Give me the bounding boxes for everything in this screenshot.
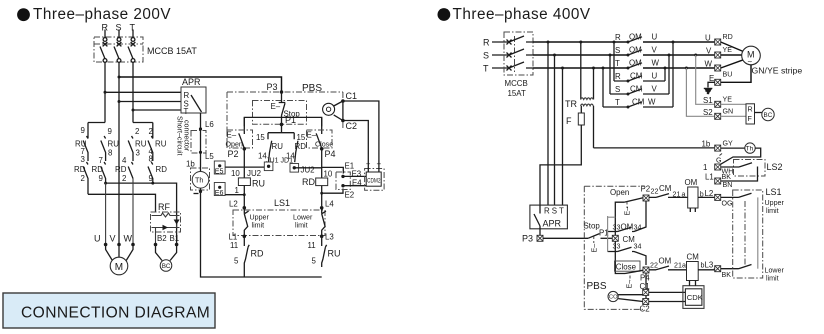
svg-text:CM: CM <box>687 253 699 262</box>
svg-text:BC: BC <box>764 112 773 119</box>
labels col3 RU <box>135 127 147 158</box>
svg-text:E–: E– <box>591 244 599 253</box>
terminal U <box>705 33 733 45</box>
svg-text:GN: GN <box>723 108 734 116</box>
svg-text:limit: limit <box>766 275 779 283</box>
node rail A col2 <box>104 182 107 185</box>
labels col1 RU <box>75 126 87 156</box>
terminal 1 <box>703 163 733 176</box>
svg-text:E–: E– <box>271 102 281 111</box>
svg-text:L2: L2 <box>229 200 238 209</box>
svg-text:RD: RD <box>295 142 307 151</box>
svg-text:Lower: Lower <box>765 267 785 275</box>
node S tap to APR <box>118 100 121 103</box>
svg-text:connector: connector <box>182 120 190 152</box>
svg-text:RU: RU <box>135 140 147 149</box>
svg-text:a: a <box>682 262 686 270</box>
svg-text:3: 3 <box>81 155 86 164</box>
terminal L1 <box>705 173 732 190</box>
wire through connector <box>200 129 202 152</box>
main line R <box>533 41 628 43</box>
node P4 <box>320 147 336 159</box>
node rail A col4 <box>151 182 154 185</box>
wire APR output down <box>200 113 202 129</box>
node R drop TR <box>579 41 582 44</box>
wire tap S to row5 <box>609 54 612 95</box>
wire P2 chain down <box>243 149 245 178</box>
svg-text:RD: RD <box>74 165 86 174</box>
holding contact 33 OM 34 <box>608 201 646 232</box>
labels col1 RD <box>74 155 86 183</box>
svg-text:22: 22 <box>650 262 658 270</box>
pushbutton Close <box>307 117 334 148</box>
svg-text:YE: YE <box>723 96 733 104</box>
svg-text:Upper: Upper <box>250 214 270 222</box>
wire E5 to JU1 <box>220 166 264 168</box>
svg-text:9: 9 <box>108 127 113 136</box>
contact CM NC 22-21 <box>649 184 688 199</box>
labels col3 RD <box>115 156 127 183</box>
wires CM coil to CDK <box>690 281 696 286</box>
terminal V <box>706 46 732 58</box>
CONNECTION DIAGRAM title box <box>3 293 215 328</box>
labels col2 RD <box>92 156 104 183</box>
svg-text:Three–phase 200V: Three–phase 200V <box>33 6 171 23</box>
svg-text:1: 1 <box>703 163 707 172</box>
wire tap R to row4 <box>613 41 616 82</box>
svg-text:V: V <box>110 234 116 244</box>
svg-text:Th: Th <box>195 177 203 185</box>
terminal E6 <box>214 183 225 197</box>
contactor matrix row3 T OM W <box>615 59 714 70</box>
motor M 400V <box>721 42 761 68</box>
svg-text:RD: RD <box>723 33 733 41</box>
limit switch LS2 <box>721 160 783 182</box>
interlock contact RU 11-5 <box>322 236 327 267</box>
svg-text:CONNECTION DIAGRAM: CONNECTION DIAGRAM <box>21 305 210 322</box>
wire C1-C2 <box>342 101 344 121</box>
labels RU 11 5 <box>308 241 341 266</box>
wire C2 to CDM2 - <box>343 121 368 173</box>
svg-text:1b: 1b <box>702 140 711 149</box>
svg-text:JU2: JU2 <box>247 169 261 178</box>
aux contact RU 15-14 <box>268 133 272 162</box>
wire B2 <box>155 228 157 245</box>
main line S <box>533 54 628 56</box>
svg-text:T: T <box>483 64 489 74</box>
svg-text:RST: RST <box>544 207 566 216</box>
rectifier RF <box>151 202 181 232</box>
wire S phase vertical <box>118 62 120 244</box>
rail B col1 to RF <box>88 194 156 212</box>
svg-text:G: G <box>716 157 722 165</box>
node S drop APR <box>553 54 556 57</box>
brake coil BC 400V <box>755 108 775 120</box>
svg-text:LS2: LS2 <box>767 162 783 172</box>
svg-text:limit: limit <box>252 222 265 230</box>
svg-text:15AT: 15AT <box>508 89 526 98</box>
buzzer CO <box>608 291 643 301</box>
contactor matrix row1 R OM U <box>615 33 714 44</box>
node E2 junction <box>320 192 323 195</box>
svg-text:LS1: LS1 <box>274 198 290 208</box>
svg-text:2: 2 <box>122 174 126 183</box>
wires C1 C2 to CDK <box>649 292 686 301</box>
buzzer BZ <box>323 101 343 121</box>
svg-text:U: U <box>652 72 658 81</box>
wire W feed <box>132 179 134 245</box>
wire P1 down to Close branch <box>615 241 625 273</box>
thermal protector Th <box>191 168 210 190</box>
svg-text:a: a <box>682 191 686 199</box>
phase monitor APR 400V <box>530 205 568 235</box>
svg-text:RD: RD <box>302 177 315 187</box>
pushbutton Stop 400V <box>584 222 613 253</box>
brake coil BC <box>156 245 177 272</box>
wire T drop to APR <box>562 68 564 205</box>
svg-text:RD: RD <box>92 165 104 174</box>
thermal Th 400V <box>721 143 755 153</box>
aux contact RD 15-14 <box>294 133 298 163</box>
node L4 <box>320 200 334 210</box>
svg-text:TR: TR <box>565 99 577 109</box>
node L6 <box>199 120 214 131</box>
wire S to APR pin S <box>119 101 181 103</box>
svg-text:T: T <box>184 107 189 116</box>
node B2 <box>154 243 158 247</box>
node L1 <box>229 233 247 242</box>
svg-text:34: 34 <box>634 224 642 232</box>
contactor main contacts col4 top bracket <box>133 122 153 124</box>
upper limit switch <box>244 208 248 237</box>
svg-text:limit: limit <box>295 222 308 230</box>
svg-text:B2: B2 <box>157 234 167 243</box>
svg-text:Th: Th <box>746 146 754 153</box>
terminal P2 <box>641 185 659 202</box>
pushbutton Open <box>226 117 253 148</box>
svg-text:BU: BU <box>723 71 733 79</box>
terminal E5 <box>214 161 225 175</box>
node E6 junction <box>243 194 245 196</box>
svg-text:PBS: PBS <box>302 83 322 94</box>
svg-text:21: 21 <box>674 262 682 270</box>
fuse F <box>540 113 584 205</box>
label G <box>716 154 722 165</box>
wire JD1 to E1 <box>294 167 343 173</box>
svg-text:M: M <box>115 262 123 273</box>
wire tap T to row6 <box>602 67 605 108</box>
wire E2 <box>322 189 343 194</box>
node L2 <box>229 200 246 210</box>
svg-text:Open: Open <box>226 141 243 149</box>
wire W tap to S2 <box>685 67 715 117</box>
contactor matrix row2 S OM V <box>615 46 714 57</box>
pushbutton Close 400V <box>615 261 644 289</box>
wire S to P3 <box>119 77 282 91</box>
terminal 1b <box>702 140 734 152</box>
terminal P1 400V <box>599 229 618 242</box>
svg-text:APR: APR <box>182 77 201 87</box>
svg-text:RF: RF <box>158 202 170 212</box>
svg-text:R: R <box>483 38 490 48</box>
svg-text:1: 1 <box>235 186 239 195</box>
svg-text:8: 8 <box>149 155 154 164</box>
svg-text:R: R <box>615 33 621 42</box>
contact OM NC 22-21 <box>649 257 687 270</box>
svg-text:V: V <box>652 85 658 94</box>
contact RU 9-8 col2 <box>101 136 106 161</box>
svg-text:W: W <box>124 234 133 244</box>
svg-text:APR: APR <box>543 219 562 229</box>
svg-text:Stop: Stop <box>584 222 601 231</box>
MCCB pole R <box>100 30 107 63</box>
svg-text:L1: L1 <box>705 173 714 182</box>
svg-text:RD: RD <box>115 165 127 174</box>
node U <box>104 243 108 247</box>
contact RU 2-3 col3 <box>128 136 133 161</box>
wire L5 to Th <box>200 152 202 171</box>
svg-text:C1: C1 <box>346 91 358 101</box>
wire C1 to CDM2 + <box>343 101 379 172</box>
contactor main contacts col1 top bracket <box>88 122 105 124</box>
labels col4 RU <box>149 127 167 156</box>
wire P4 chain down <box>321 149 323 178</box>
svg-text:S: S <box>615 46 620 55</box>
svg-text:YE: YE <box>723 46 733 54</box>
svg-text:S1: S1 <box>703 96 713 105</box>
svg-text:11: 11 <box>308 241 316 250</box>
wire coil to L2 <box>243 186 245 208</box>
limit switch LS1 400V <box>733 187 785 283</box>
node P3 <box>267 82 284 94</box>
terminal L3 400V <box>705 261 732 280</box>
connector JD1 <box>290 164 299 173</box>
MCCB 15AT 400V <box>504 32 533 98</box>
contact RD 3-2 col1 <box>83 162 88 194</box>
wire row6 up to U line <box>672 41 675 108</box>
contact RD 4-2 col3 <box>128 162 133 179</box>
svg-text:U: U <box>705 34 711 43</box>
wire V tap to S1 <box>694 54 714 105</box>
labels B2 B1 <box>157 234 179 243</box>
wire P3 to Stop <box>543 237 588 239</box>
terminals E3 E4 box <box>336 170 362 190</box>
terminal C2 400V <box>640 299 650 314</box>
wire R to APR pin R <box>105 91 181 93</box>
svg-text:3: 3 <box>136 149 141 158</box>
motor M <box>106 245 133 275</box>
battery CDM2 <box>365 160 385 191</box>
coil CM <box>687 253 705 281</box>
svg-text:Close: Close <box>315 141 333 149</box>
labels RD 11 5 <box>230 241 264 266</box>
svg-text:E6: E6 <box>215 189 224 197</box>
wire T phase vertical <box>132 62 134 122</box>
svg-text:RU: RU <box>108 140 120 149</box>
svg-text:limit: limit <box>766 207 779 215</box>
labels 10 JU2 <box>231 169 261 178</box>
wire U feed <box>105 183 107 244</box>
labels aux RU <box>256 133 283 161</box>
svg-text:Close: Close <box>616 263 637 272</box>
svg-text:BC: BC <box>162 263 171 270</box>
wire CM to L3 <box>698 269 714 270</box>
svg-text:CO: CO <box>609 295 618 301</box>
PBS enclosure border <box>227 83 343 148</box>
svg-text:S: S <box>483 51 489 61</box>
svg-text:34: 34 <box>634 243 642 251</box>
svg-text:B1: B1 <box>170 234 180 243</box>
labels col4 RD <box>149 155 168 184</box>
coil RD <box>301 166 333 188</box>
interlock contact RD 11-5 <box>244 236 249 277</box>
ground symbol <box>704 82 715 93</box>
node T drop TR <box>592 67 595 70</box>
wire E6 <box>220 194 244 196</box>
capacitor unit CDK <box>683 286 704 309</box>
svg-text:Open: Open <box>610 188 629 197</box>
label lower limit <box>293 214 313 230</box>
wire P4 down to C1 C2 <box>645 273 647 303</box>
MCCB pole T <box>128 30 135 63</box>
wire P1 up to Open branch <box>615 202 624 235</box>
wires E3 E4 to CDM2 <box>343 176 366 185</box>
svg-text:MCCB 15AT: MCCB 15AT <box>147 46 197 56</box>
svg-text:10: 10 <box>231 169 240 178</box>
svg-text:R: R <box>615 72 621 81</box>
node 1 below Th <box>194 190 203 194</box>
node L5 <box>199 151 214 161</box>
svg-text:JU2: JU2 <box>301 166 315 175</box>
relay APR <box>181 77 206 116</box>
svg-text:33: 33 <box>613 243 621 251</box>
rectifier RF 400V <box>721 104 755 124</box>
svg-text:L3: L3 <box>705 261 714 270</box>
svg-text:JU1: JU1 <box>266 157 279 165</box>
wire R phase vertical <box>104 62 106 122</box>
svg-text:BK: BK <box>722 173 732 181</box>
svg-text:15: 15 <box>256 133 265 142</box>
pushbutton Stop <box>253 92 307 124</box>
svg-text:E2: E2 <box>345 191 355 200</box>
node B1 <box>175 243 179 247</box>
svg-text:RU: RU <box>155 140 167 149</box>
svg-text:U: U <box>652 33 658 42</box>
bracket aux contacts <box>268 132 294 134</box>
svg-text:21: 21 <box>673 191 681 199</box>
svg-text:F: F <box>566 116 572 126</box>
svg-text:Short–circuit: Short–circuit <box>175 116 183 155</box>
svg-text:C2: C2 <box>346 121 358 131</box>
wires R S T into MCCB <box>492 42 508 68</box>
svg-text:22: 22 <box>651 188 659 196</box>
contactor matrix row6 T CM W <box>603 98 673 109</box>
svg-text:5: 5 <box>234 257 239 266</box>
svg-text:P1: P1 <box>285 115 296 125</box>
pushbutton Open 400V <box>608 188 643 217</box>
wire coil RD to L4 <box>321 186 323 206</box>
wire TR secondary to 1b <box>594 147 715 149</box>
svg-text:MCCB: MCCB <box>505 79 528 88</box>
svg-text:E–: E– <box>307 131 317 140</box>
svg-text:F: F <box>748 115 753 123</box>
svg-text:10: 10 <box>324 170 333 179</box>
title 400V <box>438 6 591 23</box>
svg-text:T: T <box>615 59 620 68</box>
wire row4 up to W line <box>664 67 667 82</box>
labels aux RD <box>286 133 306 161</box>
node P2 <box>228 147 247 159</box>
svg-text:S: S <box>615 85 620 94</box>
svg-text:CM: CM <box>659 184 671 193</box>
svg-text:C2: C2 <box>640 305 650 314</box>
wire L2 to LS1 upper <box>721 193 752 197</box>
svg-text:E5: E5 <box>215 167 224 175</box>
terminal S1 <box>703 96 732 108</box>
svg-text:RU: RU <box>252 179 265 189</box>
svg-text:OM: OM <box>685 178 698 187</box>
node W <box>131 243 135 247</box>
svg-text:GY: GY <box>723 140 734 148</box>
node C1 <box>341 91 357 103</box>
svg-text:2: 2 <box>135 127 139 136</box>
node V <box>117 243 121 247</box>
svg-text:L2: L2 <box>705 189 714 198</box>
terminal P3 400V <box>522 234 543 244</box>
svg-text:Three–phase 400V: Three–phase 400V <box>453 6 591 23</box>
svg-text:P3: P3 <box>267 82 278 92</box>
svg-text:2: 2 <box>149 127 153 136</box>
svg-text:11: 11 <box>230 241 238 250</box>
label upper limit <box>250 214 270 230</box>
wire OM to L2 <box>698 196 714 198</box>
svg-text:CDM2: CDM2 <box>367 178 381 184</box>
svg-text:L6: L6 <box>205 120 214 129</box>
labels U V W <box>94 234 133 244</box>
contact RU 2-4 col4 <box>148 123 153 162</box>
svg-text:RD: RD <box>156 165 168 174</box>
wire Th down to bottom rail <box>201 188 322 277</box>
svg-text:T: T <box>615 98 620 107</box>
wire R drop to APR <box>547 42 549 205</box>
contact RU 9-7 col1 <box>83 123 88 162</box>
wire T to APR pin T <box>133 109 181 111</box>
svg-text:V: V <box>706 47 712 56</box>
MCCB 15AT breaker box <box>94 37 197 62</box>
coil RU <box>238 178 265 189</box>
svg-text:U: U <box>94 234 101 244</box>
lower limit switch <box>322 208 326 237</box>
svg-text:7: 7 <box>99 156 103 165</box>
contactor matrix row5 S CM V <box>610 85 669 96</box>
wire S drop to APR <box>554 55 556 205</box>
wire Th return to 1 <box>721 148 761 164</box>
rail open/close <box>244 115 321 134</box>
svg-text:GN/YE stripe: GN/YE stripe <box>752 66 803 76</box>
labels col2 RU <box>108 127 120 158</box>
svg-text:RD: RD <box>251 249 264 259</box>
svg-text:4: 4 <box>122 156 127 165</box>
terminal E <box>709 74 721 85</box>
svg-text:33: 33 <box>613 224 621 232</box>
svg-text:8: 8 <box>108 149 113 158</box>
svg-text:9: 9 <box>99 174 104 183</box>
svg-text:E–: E– <box>227 131 237 140</box>
svg-text:W: W <box>705 60 713 69</box>
svg-text:L5: L5 <box>205 152 214 161</box>
svg-text:Lower: Lower <box>293 214 313 222</box>
svg-text:2: 2 <box>81 174 85 183</box>
